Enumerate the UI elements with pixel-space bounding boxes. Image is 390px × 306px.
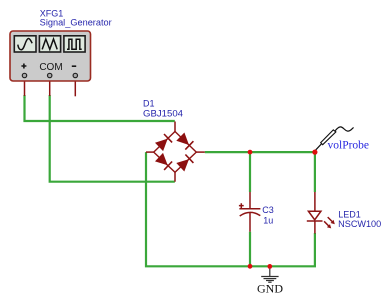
svg-text:GBJ1504: GBJ1504 xyxy=(143,108,183,118)
svg-text:volProbe: volProbe xyxy=(328,140,370,152)
svg-text:COM: COM xyxy=(39,62,62,73)
svg-text:D1: D1 xyxy=(143,99,155,109)
svg-text:1u: 1u xyxy=(263,216,273,226)
svg-text:GND: GND xyxy=(257,282,283,296)
svg-text:NSCW100: NSCW100 xyxy=(338,219,381,229)
svg-text:C3: C3 xyxy=(262,205,274,215)
svg-text:Signal_Generator: Signal_Generator xyxy=(40,17,112,27)
